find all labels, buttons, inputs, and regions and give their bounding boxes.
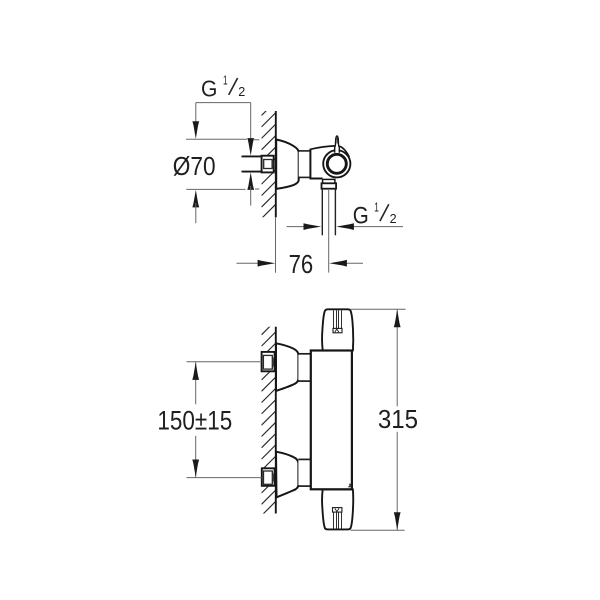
svg-text:76: 76 [289,249,314,279]
wall extension line down to 76 dimension [275,217,277,273]
76 arrow right at wall [258,260,276,267]
svg-text:1: 1 [223,73,228,88]
square union fitting (top view) [262,156,274,173]
150±15 dimension ext lines [187,362,262,478]
valve body (top view) [310,146,350,179]
bottom handle grip ribs [334,512,342,529]
lower square union fitting [262,468,275,486]
wall hatching (bottom view) [262,319,278,516]
pipe centre extension line [328,190,330,273]
dimension text G1/2 (right of pipe) [353,200,397,230]
wall line (bottom view) [275,327,277,514]
top handle (bottom view) [322,309,353,350]
svg-text:G: G [201,76,217,102]
escutcheon (top view) [276,140,299,189]
svg-text:Ø70: Ø70 [173,151,216,181]
svg-text:G: G [353,203,369,230]
upper connector [298,354,310,381]
union nut band 2 [322,183,337,188]
tiny logo mark inside body [349,484,352,487]
315 arrow down [394,512,401,530]
svg-text:150±15: 150±15 [157,405,232,435]
arrow up at pipe bottom edge, with tail line [247,172,254,190]
top handle grip ribs [334,310,342,328]
G1/2 leader: horizontal + two verticals with down arrows [196,103,251,140]
lower escutcheon (bottom view) [276,452,298,498]
handle circle (top view) outer ring [323,150,350,177]
150±15 dimension line with arrows [195,362,197,477]
76 dimension [237,262,364,264]
dimension text G1/2 (top left) [201,73,245,102]
upper square union fitting [262,352,275,371]
neck between escutcheon and body [299,151,311,178]
bottom handle grip box [333,508,342,512]
handle circle inner ring [327,154,346,173]
arrow down at escutcheon top ext line [192,121,199,139]
lower connector [298,459,310,486]
upper escutcheon (bottom view) [276,343,298,391]
wall hatching (top view) [262,88,278,219]
315 dimension ext lines [350,309,405,530]
Ø70 lower arrow tail line [195,203,197,223]
supply pipe stub in wall [242,156,263,171]
76 arrow left at pipe centre [329,260,347,267]
svg-text:315: 315 [378,404,418,434]
ext line Ø70 bottom [186,188,259,190]
arrow down at pipe top edge [247,138,254,156]
main body (bottom view) [311,351,352,490]
svg-text:1: 1 [374,200,379,215]
315 dimension line with arrows [396,310,398,530]
Ø70 lower arrow (up) with tail [192,190,199,208]
arrow right at pipe left edge [304,223,322,230]
ext line Ø70 top [186,138,259,141]
svg-text:2: 2 [238,84,245,99]
arrow left at pipe right edge [336,223,354,230]
315 arrow up [394,310,401,328]
G1/2 pipe diameter dimension line [287,226,404,228]
wall line (top view) [275,111,277,217]
svg-text:2: 2 [390,211,397,226]
top handle grip box [333,328,342,332]
150 arrow up [192,362,199,380]
union nut band 1 below body [323,179,335,183]
bottom handle (bottom view) [322,489,353,529]
hose pipe below nut [322,189,335,235]
lever pin on top of circle [335,136,340,153]
150 arrow down [192,460,199,478]
